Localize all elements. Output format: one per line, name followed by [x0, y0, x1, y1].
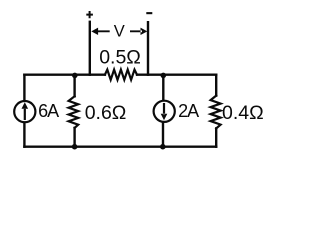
wire left edge lower: [23, 123, 25, 146]
plus sign: [86, 11, 93, 18]
current source I1 circle: [14, 101, 35, 122]
node dot top left: [72, 73, 78, 79]
wire bottom rail: [24, 145, 216, 147]
current source I2 arrow (down): [161, 103, 168, 120]
resistor 0.5ohm zigzag: [105, 70, 137, 80]
svg-text:2A: 2A: [178, 101, 199, 121]
svg-text:V: V: [114, 22, 125, 40]
wire top rail left segment: [24, 73, 105, 75]
svg-text:0.4Ω: 0.4Ω: [222, 102, 264, 124]
current source I2 circle: [154, 101, 175, 122]
svg-text:6A: 6A: [38, 101, 59, 121]
V arrow right: [130, 28, 147, 35]
wire right edge lower: [215, 128, 217, 146]
wire 2A branch bottom: [162, 123, 164, 147]
wire 0.6ohm branch bottom: [73, 128, 75, 147]
wire top rail right segment: [137, 73, 216, 75]
minus sign: [146, 12, 152, 14]
wire right edge upper: [215, 75, 217, 96]
node dot bottom right: [160, 144, 166, 150]
V arrow left: [91, 28, 109, 35]
resistor 0.6ohm zigzag: [69, 96, 79, 128]
node dot top right: [161, 73, 167, 79]
svg-text:0.5Ω: 0.5Ω: [99, 47, 141, 69]
wire 2A branch top: [162, 75, 164, 100]
resistor 0.4ohm zigzag: [211, 96, 221, 129]
svg-text:0.6Ω: 0.6Ω: [85, 102, 127, 124]
voltage stub right: [147, 22, 149, 74]
voltage stub left: [89, 22, 91, 75]
wire left edge upper: [23, 75, 25, 100]
current source I1 arrow (up): [21, 102, 28, 120]
node dot bottom left: [72, 144, 78, 150]
wire 0.6ohm branch top: [73, 75, 75, 97]
